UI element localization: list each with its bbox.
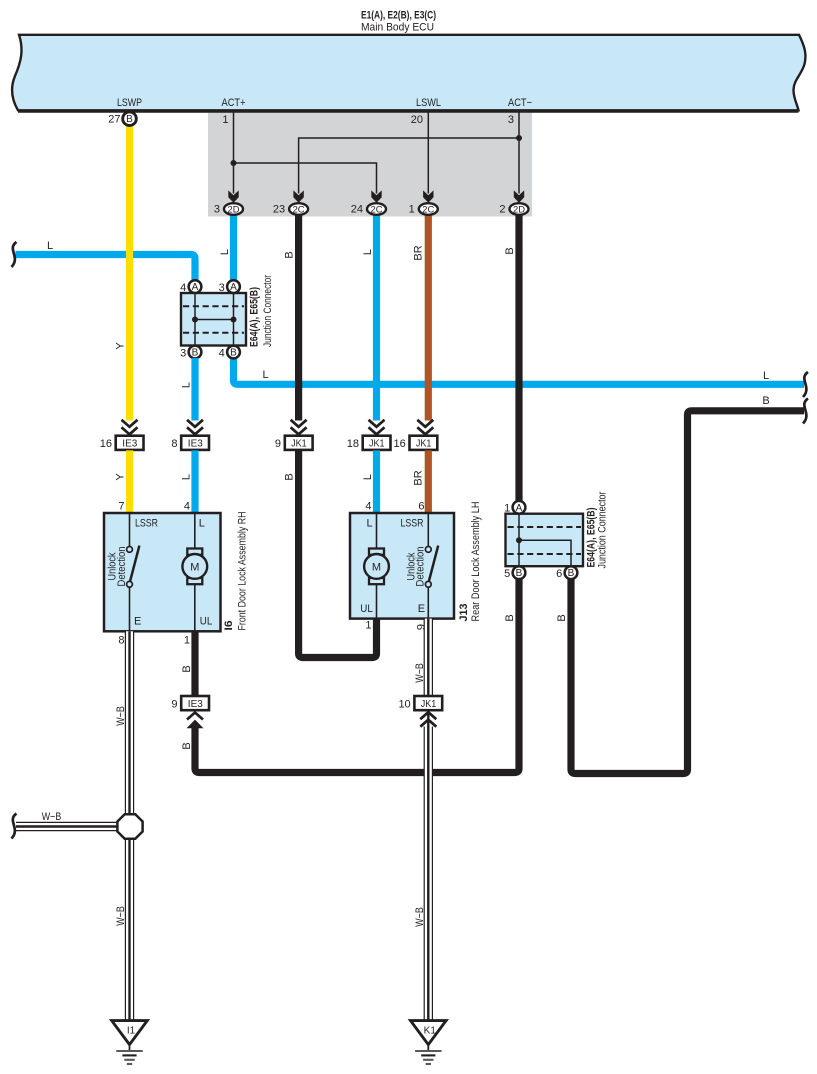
svg-text:8: 8 <box>118 635 124 647</box>
svg-text:L: L <box>763 370 769 382</box>
svg-text:4: 4 <box>219 347 225 359</box>
wire W-B left horizontal from break to splice <box>16 822 130 831</box>
connector 18 JK1 <box>347 420 391 450</box>
svg-text:A: A <box>516 503 523 514</box>
svg-text:6: 6 <box>418 501 424 513</box>
break symbol right (black wire) <box>803 399 808 424</box>
svg-text:JK1: JK1 <box>421 699 437 710</box>
svg-text:L: L <box>199 518 205 530</box>
switch unlock detection (front) <box>127 547 133 553</box>
svg-text:6: 6 <box>556 568 562 580</box>
svg-text:ACT−: ACT− <box>508 97 532 109</box>
svg-text:L: L <box>219 249 231 255</box>
svg-text:B: B <box>568 568 575 579</box>
Rear Door Lock Assembly LH box J13 <box>350 513 454 619</box>
wire Y yellow LSWP vertical <box>126 113 133 421</box>
ground K1 <box>411 1021 447 1064</box>
svg-text:LSSR: LSSR <box>401 518 424 530</box>
svg-text:A: A <box>192 282 199 293</box>
svg-text:E64(A), E65(B): E64(A), E65(B) <box>249 287 261 347</box>
svg-text:W−B: W−B <box>42 811 62 823</box>
wire L blue 8IE3 to front box pin 4 <box>191 450 198 513</box>
svg-text:1: 1 <box>504 503 510 515</box>
Front Door Lock Assembly RH box I6 <box>104 513 221 631</box>
svg-text:IE3: IE3 <box>188 699 203 710</box>
connector 10 JK1 <box>398 696 442 727</box>
splice node octagon <box>117 814 142 839</box>
svg-text:UL: UL <box>360 603 373 615</box>
svg-text:2C: 2C <box>371 204 383 215</box>
connector oval 2C pin 24 <box>351 203 386 216</box>
svg-text:E: E <box>418 603 425 615</box>
svg-text:18: 18 <box>347 438 359 450</box>
wire ACT- branch horizontal to 23(2C) <box>299 138 519 194</box>
svg-text:23: 23 <box>273 204 285 216</box>
svg-text:2D: 2D <box>228 204 240 215</box>
svg-text:4: 4 <box>365 501 371 513</box>
svg-text:A: A <box>230 282 237 293</box>
arrow into 2(2D) <box>514 190 524 202</box>
svg-text:2C: 2C <box>422 204 434 215</box>
svg-text:L: L <box>181 382 193 388</box>
pin circle A (4) <box>189 280 202 293</box>
wire B black from E64 right B6 corner up and right off page <box>571 411 804 774</box>
harness shield gray box <box>208 113 532 217</box>
svg-text:L: L <box>47 240 53 252</box>
svg-text:4: 4 <box>184 501 190 513</box>
connector 16 JK1 <box>394 420 438 450</box>
svg-text:3: 3 <box>214 204 220 216</box>
svg-text:L: L <box>362 474 374 480</box>
wire W-B 10 JK1 down to ground K1 <box>424 710 433 1020</box>
svg-text:B: B <box>762 395 769 407</box>
svg-text:I6: I6 <box>223 621 235 631</box>
arrow into 3(2D) <box>228 190 238 202</box>
connector oval 2C pin 23 <box>273 203 308 216</box>
connector 8 IE3 <box>171 420 209 450</box>
ECU bottom border <box>18 110 799 113</box>
wire B black from 2(2D) down to junction connector E64/E65 right <box>515 214 522 502</box>
svg-text:L: L <box>262 369 268 381</box>
svg-text:Front Door Lock Assembly RH: Front Door Lock Assembly RH <box>237 511 249 630</box>
svg-text:1: 1 <box>184 635 190 647</box>
wire L blue junction connector B4 down then right across page (lower horizontal) <box>234 358 805 384</box>
wire BR brown from 1(2C) down to 16 JK1 <box>425 214 432 421</box>
svg-text:Y: Y <box>115 473 127 481</box>
svg-text:2D: 2D <box>513 204 525 215</box>
svg-text:B: B <box>181 742 193 749</box>
svg-text:L: L <box>367 518 373 530</box>
svg-text:BR: BR <box>412 470 424 485</box>
wire B black 9JK1 down right up to rear box pin 1 (UL) <box>299 450 377 657</box>
wire ACT+ branch horizontal to 24(2C) <box>234 163 377 194</box>
wire B black front box pin1 (UL) down to 9 IE3 <box>191 631 198 696</box>
svg-text:Detection: Detection <box>415 547 427 587</box>
wire W-B front box pin 8 down to ground I1 <box>125 631 134 1020</box>
arrow into 23(2C) <box>293 190 303 202</box>
arrow into 24(2C) <box>371 190 381 202</box>
svg-text:J13: J13 <box>458 604 470 622</box>
svg-text:20: 20 <box>411 114 423 126</box>
svg-text:M: M <box>372 561 381 573</box>
svg-text:L: L <box>181 474 193 480</box>
svg-text:B: B <box>556 614 568 621</box>
pin circle A (3) <box>227 280 240 293</box>
svg-text:5: 5 <box>504 568 510 580</box>
svg-text:K1: K1 <box>424 1026 437 1037</box>
svg-text:Main Body ECU: Main Body ECU <box>361 22 434 34</box>
svg-text:1: 1 <box>222 114 228 126</box>
svg-text:LSWP: LSWP <box>117 97 142 109</box>
svg-text:24: 24 <box>351 204 363 216</box>
wire L blue junction connector B3 down to 8 IE3 <box>191 358 198 421</box>
svg-text:B: B <box>230 348 237 359</box>
junction connector E64(A),E65(B) left box <box>181 293 246 346</box>
svg-text:10: 10 <box>398 698 410 710</box>
svg-text:B: B <box>504 247 516 254</box>
break symbol right (blue wire) <box>803 372 808 397</box>
svg-text:E: E <box>134 616 141 628</box>
pin circle A (1) right JC <box>513 501 526 514</box>
svg-text:ACT+: ACT+ <box>222 97 246 109</box>
wire L blue from 3(2D) down to junction connector <box>230 214 237 281</box>
wire ACT- vertical thin <box>518 112 520 194</box>
svg-text:JK1: JK1 <box>416 439 432 450</box>
wire LSWL vertical thin <box>427 112 429 194</box>
svg-text:B: B <box>284 473 296 480</box>
pin circle B (LSWP 27) <box>123 112 137 126</box>
svg-text:E1(A), E2(B), E3(C): E1(A), E2(B), E3(C) <box>361 10 436 22</box>
svg-text:1: 1 <box>365 620 371 632</box>
svg-text:IE3: IE3 <box>188 439 203 450</box>
connector oval 2D pin 2 <box>499 203 528 216</box>
svg-text:BR: BR <box>412 245 424 260</box>
wire Y yellow 16IE3 to front box pin 7 <box>126 450 133 513</box>
svg-text:3: 3 <box>219 282 225 294</box>
pin circle B (5) right JC <box>513 566 526 579</box>
switch unlock detection (rear) <box>425 547 431 553</box>
wire ACT+ vertical thin <box>233 112 235 194</box>
motor M (front) <box>187 549 202 555</box>
motor M (rear) <box>369 549 384 555</box>
ground I1 <box>112 1021 148 1064</box>
svg-text:Rear Door Lock Assembly LH: Rear Door Lock Assembly LH <box>470 501 482 621</box>
svg-text:LSSR: LSSR <box>135 518 158 530</box>
svg-text:1: 1 <box>409 204 415 216</box>
svg-text:W−B: W−B <box>414 907 426 927</box>
svg-text:4: 4 <box>180 282 186 294</box>
pin circle B (4) <box>227 346 240 359</box>
svg-text:JK1: JK1 <box>369 439 385 450</box>
svg-text:UL: UL <box>200 616 213 628</box>
svg-text:L: L <box>362 249 374 255</box>
connector 16 IE3 <box>100 420 144 450</box>
break symbol left (W-B wire) <box>12 814 17 839</box>
svg-text:B: B <box>192 348 199 359</box>
svg-text:W−B: W−B <box>115 706 127 726</box>
svg-text:B: B <box>516 568 523 579</box>
svg-text:7: 7 <box>118 501 124 513</box>
svg-text:W−B: W−B <box>414 663 426 683</box>
svg-text:16: 16 <box>394 438 406 450</box>
svg-text:2: 2 <box>499 204 505 216</box>
svg-text:27: 27 <box>108 114 120 126</box>
break symbol left (blue wire) <box>12 242 17 267</box>
connector oval 2C pin 1 <box>409 203 438 216</box>
pin circle B (6) right JC <box>565 566 578 579</box>
pin circle B (3) <box>189 346 202 359</box>
svg-text:Y: Y <box>115 342 127 350</box>
svg-text:JK1: JK1 <box>291 439 307 450</box>
wire B black from 9 IE3 down right up to E64 right B5 <box>195 579 519 773</box>
wire L horizontal upper (blue) <box>16 255 196 282</box>
connector 9 JK1 <box>275 420 313 450</box>
wire L blue from 24(2C) down to 18 JK1 <box>373 214 380 421</box>
arrow into 1(2C) <box>423 190 433 202</box>
svg-text:Junction Connector: Junction Connector <box>596 491 608 568</box>
wire B black from 23(2C) down to 9 JK1 <box>295 214 302 421</box>
svg-text:3: 3 <box>508 114 514 126</box>
svg-text:2C: 2C <box>293 204 305 215</box>
svg-text:Junction Connector: Junction Connector <box>262 275 274 347</box>
svg-text:B: B <box>181 665 193 672</box>
junction connector E64(A),E65(B) right box <box>506 514 584 567</box>
node junction dot ACT- <box>516 135 522 141</box>
svg-text:3: 3 <box>180 347 186 359</box>
svg-text:IE3: IE3 <box>122 439 137 450</box>
svg-text:W−B: W−B <box>115 906 127 926</box>
wire BR brown 16JK1 to rear box pin 6 <box>425 450 432 513</box>
connector oval 2D pin 3 <box>214 203 243 216</box>
wire L blue 18JK1 to rear box pin 4 <box>373 450 380 513</box>
svg-text:I1: I1 <box>127 1026 136 1037</box>
svg-text:LSWL: LSWL <box>416 97 441 109</box>
connector 9 IE3 <box>171 696 209 728</box>
node junction dot ACT+ <box>231 160 237 166</box>
svg-text:8: 8 <box>171 438 177 450</box>
svg-text:9: 9 <box>275 438 281 450</box>
svg-text:B: B <box>126 114 133 125</box>
Main Body ECU band <box>12 35 805 111</box>
svg-text:16: 16 <box>100 438 112 450</box>
svg-text:Detection: Detection <box>116 547 128 587</box>
wire W-B rear box pin 9 (E) down to 10 JK1 <box>424 619 433 696</box>
svg-text:9: 9 <box>171 698 177 710</box>
svg-text:M: M <box>190 561 199 573</box>
svg-text:B: B <box>504 614 516 621</box>
svg-text:B: B <box>284 251 296 258</box>
